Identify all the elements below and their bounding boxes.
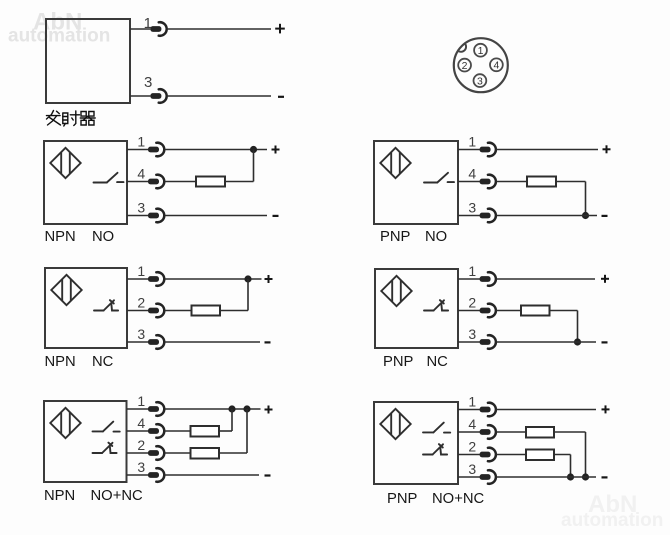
label 发射器 (transmitter) bbox=[47, 111, 96, 127]
wire pin1 to plus bbox=[167, 28, 271, 30]
wire pin4 stub bbox=[458, 431, 482, 433]
svg-text:2: 2 bbox=[462, 60, 468, 72]
label PNP NC bbox=[383, 354, 448, 370]
svg-text:NC: NC bbox=[92, 354, 114, 370]
label NPN NO bbox=[45, 229, 115, 245]
pin label 4 bbox=[137, 165, 145, 181]
sensor box PNP NO+NC bbox=[374, 402, 458, 484]
pin label 3 bbox=[137, 459, 145, 475]
wire pin1 stub bbox=[127, 278, 150, 280]
svg-text:automation: automation bbox=[8, 26, 110, 47]
connector plug pin 2 bbox=[148, 446, 164, 460]
svg-text:NO: NO bbox=[92, 229, 114, 245]
svg-text:NO+NC: NO+NC bbox=[91, 488, 144, 504]
label PNP NO bbox=[380, 229, 447, 245]
wire pin3 stub bbox=[458, 476, 482, 478]
optical sensor symbol (NPN NC) bbox=[51, 275, 81, 305]
svg-text:3: 3 bbox=[468, 199, 476, 215]
wire pin1 stub bbox=[458, 278, 482, 280]
load resistor RL bbox=[527, 177, 556, 187]
svg-text:3: 3 bbox=[137, 326, 145, 342]
wire pin1 stub bbox=[127, 408, 151, 410]
junction dot on pin1 bbox=[244, 275, 251, 282]
connector plug pin 4 bbox=[480, 425, 496, 439]
svg-text:NO: NO bbox=[425, 229, 447, 245]
junction dot 1 on pin1 bbox=[228, 405, 235, 412]
connector plug pin 2 bbox=[148, 304, 164, 318]
switch NC (inside PNP NO+NC box) bbox=[423, 444, 447, 454]
pin label 4 bbox=[468, 416, 476, 432]
switch NC (inside NPN NC box) bbox=[94, 300, 118, 310]
svg-text:1: 1 bbox=[137, 393, 145, 409]
switch NC (inside NPN NO+NC box) bbox=[93, 443, 117, 453]
switch NO (inside PNP NO+NC box) bbox=[423, 423, 450, 433]
label PNP NO+NC bbox=[387, 491, 485, 507]
load resistor RL bbox=[192, 306, 221, 316]
connector plug pin 3 bbox=[480, 209, 496, 223]
wire pin2 stub bbox=[458, 454, 482, 456]
terminal + bbox=[602, 405, 610, 413]
connector plug pin 2 bbox=[480, 448, 496, 462]
svg-text:3: 3 bbox=[468, 461, 476, 477]
connector pin 1 bbox=[474, 44, 487, 57]
svg-text:PNP: PNP bbox=[387, 491, 418, 507]
load resistor RL2 bbox=[526, 450, 554, 461]
svg-text:1: 1 bbox=[137, 133, 145, 149]
connector plug pin 3 bbox=[480, 470, 496, 484]
pin label 2 bbox=[137, 294, 145, 310]
svg-text:3: 3 bbox=[137, 459, 145, 475]
pin label 1 bbox=[137, 133, 145, 149]
terminal - bbox=[273, 215, 279, 217]
load resistor RL1 bbox=[526, 427, 554, 438]
wire pin3 stub bbox=[458, 341, 482, 343]
connector plug pin 1 bbox=[148, 143, 164, 157]
wire pin3 stub bbox=[458, 215, 482, 217]
svg-text:PNP: PNP bbox=[380, 229, 411, 245]
wire pin3 to minus bbox=[165, 474, 259, 476]
label NPN NO+NC bbox=[44, 488, 143, 504]
wire pin2 to load bbox=[496, 310, 521, 312]
svg-text:4: 4 bbox=[493, 60, 499, 72]
pin label 1 bbox=[137, 263, 145, 279]
wire pin2 stub bbox=[458, 310, 482, 312]
wire pin3 to minus bbox=[165, 341, 260, 343]
terminal + bbox=[265, 275, 273, 283]
load resistor RL bbox=[196, 177, 225, 187]
svg-text:4: 4 bbox=[468, 165, 476, 181]
svg-text:4: 4 bbox=[137, 415, 145, 431]
wire pin3 stub bbox=[130, 95, 150, 97]
keying notch bbox=[458, 43, 466, 52]
connector plug pin 4 bbox=[148, 175, 164, 189]
svg-text:2: 2 bbox=[468, 294, 476, 310]
svg-text:PNP: PNP bbox=[383, 354, 414, 370]
svg-text:3: 3 bbox=[468, 326, 476, 342]
connector plug pin 1 bbox=[148, 402, 164, 416]
svg-text:3: 3 bbox=[137, 199, 145, 215]
junction dot on pin3 bbox=[582, 212, 589, 219]
wire pin1 to plus bbox=[496, 278, 595, 280]
connector pin 3 bbox=[474, 74, 487, 87]
svg-text:3: 3 bbox=[477, 75, 483, 87]
svg-text:NO+NC: NO+NC bbox=[432, 491, 485, 507]
wire pin3 to minus bbox=[496, 341, 596, 343]
wire pin2 stub bbox=[127, 310, 150, 312]
connector plug pin 4 bbox=[480, 175, 496, 189]
wire pin4 stub bbox=[127, 181, 150, 183]
connector plug pin 1 bbox=[480, 403, 496, 417]
wire pin3 to minus bbox=[167, 95, 271, 97]
sensor box PNP NC bbox=[375, 269, 458, 348]
svg-text:NPN: NPN bbox=[45, 229, 76, 245]
svg-text:3: 3 bbox=[144, 74, 152, 91]
connector plug pin 1 bbox=[480, 143, 496, 157]
label NPN NC bbox=[45, 354, 114, 370]
wire pin1 to plus bbox=[165, 278, 262, 280]
terminal + bbox=[272, 146, 280, 154]
pin label 1 bbox=[468, 394, 476, 410]
pin label 1 bbox=[137, 393, 145, 409]
junction dot 2 on pin3 bbox=[582, 473, 589, 480]
wire pin4 to load bbox=[165, 181, 196, 183]
wire pin3 stub bbox=[127, 341, 150, 343]
wire load down to pin3 bbox=[556, 182, 586, 216]
switch NO (inside NPN NO box) bbox=[94, 173, 124, 183]
pin label 3 bbox=[144, 74, 152, 91]
terminal + bbox=[601, 275, 609, 283]
wire pin4 to load1 bbox=[496, 431, 526, 433]
wire pin4 to load bbox=[496, 181, 527, 183]
pin label 3 bbox=[468, 461, 476, 477]
svg-text:NPN: NPN bbox=[44, 488, 75, 504]
connector plug pin 3 bbox=[148, 335, 164, 349]
connector plug pin 1 bbox=[148, 272, 164, 286]
connector pin 2 bbox=[458, 59, 471, 72]
terminal - bbox=[602, 341, 608, 343]
terminal - bbox=[278, 96, 284, 98]
junction dot on pin1 bbox=[250, 146, 257, 153]
wire pin3 to minus bbox=[165, 215, 267, 217]
wire pin1 stub bbox=[458, 149, 482, 151]
pin label 2 bbox=[137, 437, 145, 453]
connector plug pin 4 bbox=[148, 424, 164, 438]
svg-text:4: 4 bbox=[468, 416, 476, 432]
terminal - bbox=[265, 341, 271, 343]
connector plug pin 2 bbox=[480, 304, 496, 318]
junction dot 2 on pin1 bbox=[243, 405, 250, 412]
connector plug pin 1 bbox=[150, 22, 166, 36]
svg-text:NC: NC bbox=[427, 354, 449, 370]
switch NC (inside PNP NC box) bbox=[424, 300, 448, 310]
wire pin2 to load bbox=[165, 310, 192, 312]
pin label 3 bbox=[468, 199, 476, 215]
connector plug pin 3 bbox=[148, 468, 164, 482]
wire pin4 stub bbox=[458, 181, 482, 183]
svg-text:automation: automation bbox=[561, 510, 663, 531]
wire pin1 to plus bbox=[165, 408, 261, 410]
wire load1 to junction1 bbox=[219, 409, 232, 431]
wire pin1 to plus bbox=[496, 149, 598, 151]
wire pin2 to load2 bbox=[165, 452, 191, 454]
pin label 2 bbox=[468, 294, 476, 310]
pin label 1 bbox=[468, 133, 476, 149]
sensor box NPN NO+NC bbox=[44, 401, 127, 482]
svg-text:4: 4 bbox=[137, 165, 145, 181]
wire load to junction bbox=[220, 279, 248, 311]
pin label 3 bbox=[468, 326, 476, 342]
wire pin2 stub bbox=[127, 452, 151, 454]
wire load down to pin3 bbox=[550, 311, 578, 343]
connector plug pin 3 bbox=[148, 209, 164, 223]
svg-text:1: 1 bbox=[478, 45, 484, 57]
pin label 3 bbox=[137, 326, 145, 342]
connector plug pin 3 bbox=[150, 89, 166, 103]
wire pin2 to load2 bbox=[496, 454, 526, 456]
connector plug pin 3 bbox=[480, 335, 496, 349]
pin label 3 bbox=[137, 199, 145, 215]
wire pin3 to minus bbox=[496, 215, 597, 217]
M12 connector face outer circle bbox=[454, 38, 508, 92]
svg-text:2: 2 bbox=[137, 294, 145, 310]
wire pin1 stub bbox=[127, 149, 150, 151]
pin label 4 bbox=[468, 165, 476, 181]
wire load1 down to pin3 bbox=[554, 432, 586, 477]
svg-text:1: 1 bbox=[468, 394, 476, 410]
switch NO (inside PNP NO box) bbox=[424, 173, 454, 183]
wire pin1 to plus bbox=[165, 149, 267, 151]
pin label 1 bbox=[468, 263, 476, 279]
wire load2 down to pin3 bbox=[554, 455, 571, 478]
svg-text:2: 2 bbox=[137, 437, 145, 453]
wire pin1 stub bbox=[130, 28, 150, 30]
pin label 4 bbox=[137, 415, 145, 431]
terminal - bbox=[602, 215, 608, 217]
svg-text:1: 1 bbox=[468, 133, 476, 149]
terminal + bbox=[275, 24, 285, 34]
terminal - bbox=[265, 474, 271, 476]
wire load to junction bbox=[225, 150, 254, 182]
optical sensor symbol (PNP NO+NC) bbox=[380, 409, 410, 439]
connector pin 4 bbox=[490, 58, 503, 71]
pin label 1 bbox=[144, 15, 152, 32]
wire pin3 stub bbox=[127, 474, 151, 476]
junction dot 1 on pin3 bbox=[567, 473, 574, 480]
svg-text:1: 1 bbox=[468, 263, 476, 279]
connector plug pin 1 bbox=[480, 272, 496, 286]
optical sensor symbol (NPN NO+NC) bbox=[50, 408, 80, 438]
svg-text:1: 1 bbox=[137, 263, 145, 279]
terminal + bbox=[265, 406, 273, 414]
load resistor RL1 bbox=[191, 426, 220, 437]
svg-text:2: 2 bbox=[468, 439, 476, 455]
wire pin1 stub bbox=[458, 409, 482, 411]
terminal + bbox=[603, 145, 611, 153]
optical sensor symbol (NPN NO) bbox=[50, 148, 80, 178]
wire pin4 to load1 bbox=[165, 430, 191, 432]
load resistor RL2 bbox=[191, 448, 220, 459]
optical sensor symbol (PNP NO) bbox=[380, 148, 410, 178]
load resistor RL bbox=[521, 306, 550, 316]
pin label 2 bbox=[468, 439, 476, 455]
terminal - bbox=[602, 476, 608, 478]
sensor box NPN NO bbox=[44, 141, 127, 224]
wire pin3 to minus bbox=[496, 476, 596, 478]
svg-text:NPN: NPN bbox=[45, 354, 76, 370]
wire load2 to junction2 bbox=[219, 409, 247, 453]
wire pin1 to plus bbox=[496, 409, 596, 411]
junction dot on pin3 bbox=[574, 338, 581, 345]
sensor box PNP NO bbox=[374, 141, 458, 224]
transmitter box U1 发射器 bbox=[46, 19, 130, 103]
switch NO (inside NPN NO+NC box) bbox=[93, 422, 120, 432]
optical sensor symbol (PNP NC) bbox=[381, 276, 411, 306]
wire pin4 stub bbox=[127, 430, 151, 432]
sensor box NPN NC bbox=[45, 268, 127, 348]
wire pin3 stub bbox=[127, 215, 150, 217]
